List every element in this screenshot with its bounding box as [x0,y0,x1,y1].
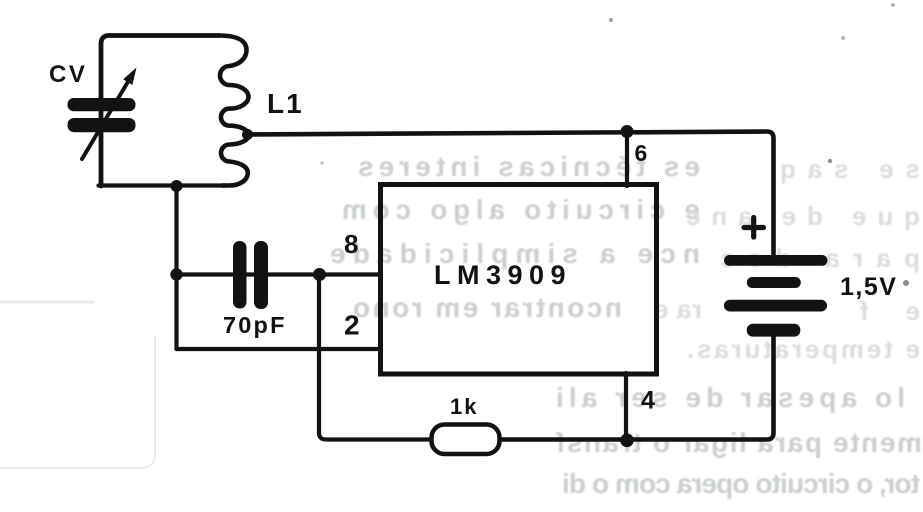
svg-text:ncontrar em rono: ncontrar em rono [353,292,622,323]
resistor R1 1k [432,425,500,455]
svg-text:lo apesar de ser ali: lo apesar de ser ali [556,382,905,413]
inductor L1 [219,36,249,186]
wire: junction down to bottom bus [319,275,434,440]
battery B1 plate 1 (long, +) [724,255,828,266]
node: junction right of 70pF [313,268,326,281]
wire: top bus from L1 tap to battery [248,132,774,258]
IC U1 LM3909 [381,185,657,375]
svg-text:L1: L1 [267,88,304,119]
variable capacitor CV (arrow) [82,80,129,159]
svg-text:4: 4 [641,387,655,415]
battery B1 plate 2 (short) [747,277,801,288]
svg-text:1k: 1k [450,394,478,419]
battery B1 plate 3 (long) [724,300,827,312]
node: pin 6 junction on top bus [621,125,634,138]
svg-text:6: 6 [635,140,648,166]
svg-text:70pF: 70pF [223,312,287,338]
node: pin 4 junction on bottom bus [620,434,634,448]
wire: tank bottom [99,183,227,187]
wire: pin 8 wire through 70pF [177,272,382,276]
wire: pin 2 wire [177,347,382,351]
wire: tank top and upper-left side [101,36,219,187]
wire: bottom bus [497,333,774,440]
wire: pin 4 [624,373,628,440]
label + (battery positive) [744,218,764,238]
battery B1 plate 4 (short) [747,324,801,337]
wire: junction down to pin 2 wire level [174,186,178,349]
node: L1 tap [242,129,253,140]
svg-text:CV: CV [49,61,87,88]
svg-text:1,5V: 1,5V [840,273,897,301]
wire: pin 6 [625,132,629,187]
node: tank bottom junction [171,180,183,192]
svg-text:ra e: ra e [654,294,702,324]
variable capacitor CV (plates) [68,98,136,111]
svg-text:2: 2 [344,310,360,341]
capacitor 70pF (plates) [233,241,247,309]
svg-text:8: 8 [344,229,358,259]
node: left junction of 70pF wire [170,268,182,280]
svg-text:tor, o circuito opera com o di: tor, o circuito opera com o di [562,468,920,499]
svg-text:LM3909: LM3909 [434,260,572,290]
